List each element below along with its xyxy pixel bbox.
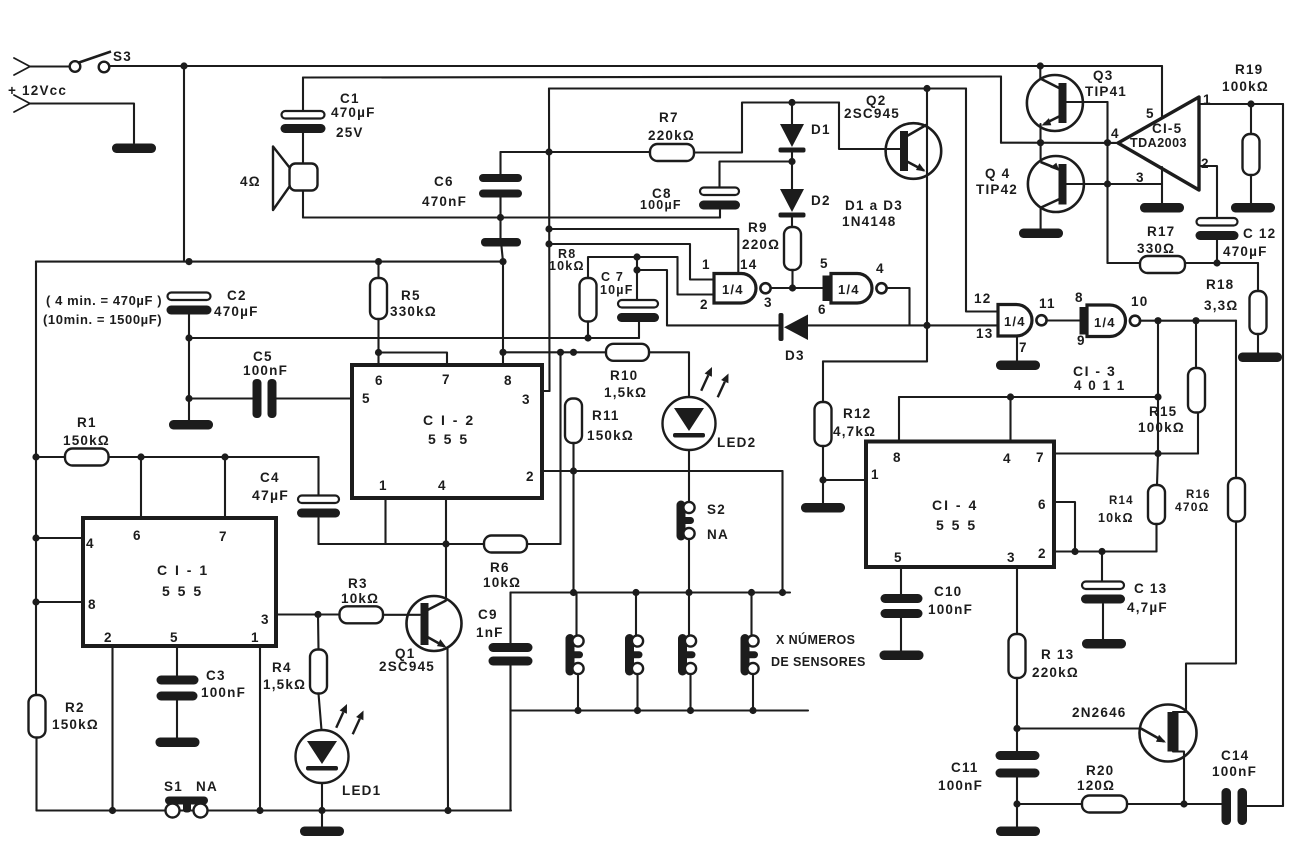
wire R14 top lead	[1157, 454, 1158, 486]
svg-text:2SC945: 2SC945	[844, 106, 900, 121]
svg-text:C4: C4	[260, 470, 280, 485]
svg-text:3: 3	[1007, 550, 1016, 565]
svg-text:DE SENSORES: DE SENSORES	[771, 655, 866, 669]
ground LED1	[300, 827, 344, 837]
switch S3	[70, 52, 111, 73]
svg-text:4: 4	[438, 478, 447, 493]
wire C14 to right rail	[1247, 805, 1283, 807]
transistor 2N2646 UJT	[1140, 705, 1197, 762]
capacitor C6 470nF	[479, 174, 522, 198]
svg-text:C I - 2: C I - 2	[423, 412, 475, 428]
wire return to ground	[30, 104, 134, 144]
node LED1 bus	[318, 807, 325, 814]
wire pin6 CI-1 drop	[140, 457, 142, 518]
svg-text:R19: R19	[1235, 62, 1263, 77]
svg-text:7: 7	[442, 372, 451, 387]
node R20 left	[1013, 800, 1020, 807]
node D1 cathode C8 tie	[788, 158, 795, 165]
svg-text:C2: C2	[227, 288, 247, 303]
wire C6 bar to bus	[502, 247, 504, 262]
wire Q3 base	[1067, 101, 1108, 103]
svg-text:470µF: 470µF	[1223, 244, 1268, 259]
wire sensor 2 top lead	[635, 593, 637, 636]
svg-text:5: 5	[362, 391, 371, 406]
node C2 bottom line	[185, 334, 192, 341]
wire R6 right riser	[559, 352, 561, 544]
resistor R5 330k	[370, 278, 387, 319]
wire bus to CI-5 pin 5	[1161, 66, 1163, 119]
node C7 top	[633, 253, 640, 260]
svg-text:NA: NA	[707, 527, 729, 542]
IC CI-4 555	[866, 442, 1054, 568]
svg-text:5: 5	[894, 550, 903, 565]
wire UJT B2 to R16	[1173, 522, 1236, 713]
wire R9 to gate output	[791, 270, 793, 288]
resistor R19 100k	[1243, 134, 1260, 175]
svg-text:C3: C3	[206, 668, 226, 683]
svg-text:150kΩ: 150kΩ	[63, 433, 110, 448]
wire Q3 emitter	[1039, 124, 1041, 143]
capacitor C10 100nF	[881, 594, 923, 618]
svg-text:C5: C5	[253, 349, 273, 364]
resistor R7 220k	[650, 144, 694, 161]
wire R6 right lead	[527, 543, 561, 545]
svg-text:25V: 25V	[336, 125, 364, 140]
wire timing bus	[36, 261, 503, 263]
wire D3 line to pin 13	[808, 324, 998, 326]
wire pin1 CI-1 drop	[259, 646, 261, 811]
svg-text:R20: R20	[1086, 763, 1114, 778]
node R6 riser top	[557, 349, 564, 356]
wire pin8 CI-1 stub	[36, 601, 83, 603]
ground Q4	[1019, 229, 1063, 239]
svg-text:C1: C1	[340, 91, 360, 106]
wire S2 to sensor bus	[688, 539, 690, 593]
capacitor C6 lower bar	[481, 238, 521, 247]
svg-text:3: 3	[522, 392, 531, 407]
wire pin5 CI-1 to C3	[176, 646, 178, 676]
svg-text:8: 8	[1075, 290, 1084, 305]
wire gate3 pin7 ground lead	[1016, 337, 1018, 362]
node S3 rail	[180, 62, 187, 69]
sensor switch 2	[625, 634, 643, 676]
svg-text:10: 10	[1131, 294, 1148, 309]
wire input to S3	[30, 65, 70, 67]
wire pin3 CI-1 line	[276, 613, 340, 615]
LED2	[663, 397, 716, 450]
wire R19 ground lead	[1250, 175, 1252, 203]
wire UJT B1 to R20 line	[1173, 752, 1184, 805]
wire pin7 CI-1 drop	[224, 457, 226, 518]
wire R12 top lead	[822, 361, 824, 402]
wire pin3 stub	[542, 390, 550, 392]
svg-text:10kΩ: 10kΩ	[549, 259, 585, 273]
node pin2 bus	[109, 807, 116, 814]
wire C11 down	[1016, 778, 1018, 828]
node pin2 sensor tie	[779, 589, 786, 596]
wire to R20	[1017, 803, 1082, 805]
svg-text:R18: R18	[1206, 277, 1234, 292]
svg-text:R1: R1	[77, 415, 97, 430]
svg-text:8: 8	[504, 373, 513, 388]
wire R17 left lead	[1108, 262, 1141, 264]
resistor R17 330R	[1140, 256, 1185, 273]
resistor R18 3.3R	[1250, 291, 1267, 334]
wire right rail	[1282, 104, 1284, 806]
wire pin2 line	[542, 470, 783, 472]
wire pin3 CI-5 ground lead	[1161, 167, 1163, 203]
wire line to gate1 input B	[678, 257, 715, 295]
svg-text:Q3: Q3	[1093, 68, 1113, 83]
wire R6 left lead	[446, 543, 484, 545]
node emitters	[1037, 139, 1044, 146]
resistor R11 150k	[565, 399, 582, 444]
capacitor C13 4.7uF	[1081, 582, 1125, 604]
diode D2 1N4148	[779, 189, 806, 218]
svg-text:R4: R4	[272, 660, 292, 675]
wire C5 to pin5 CI-2	[277, 397, 353, 399]
wire C2 down to ground	[188, 315, 190, 421]
resistor R16 470R	[1228, 478, 1245, 522]
input terminal chevron +12V lower	[14, 67, 30, 76]
svg-text:6: 6	[375, 373, 384, 388]
svg-text:220kΩ: 220kΩ	[1032, 665, 1079, 680]
svg-text:D2: D2	[811, 193, 831, 208]
resistor R4 1.5k	[310, 650, 327, 694]
svg-text:1: 1	[251, 630, 260, 645]
speaker 4 ohm	[273, 147, 318, 211]
svg-text:1/4: 1/4	[838, 282, 860, 297]
node sensor4 top	[748, 589, 755, 596]
wire R20 to C14	[1127, 803, 1222, 805]
wire D3 line left	[667, 324, 778, 326]
resistor R1 150k	[65, 449, 109, 466]
wire C6 mid lead	[499, 198, 501, 239]
svg-text:120Ω: 120Ω	[1077, 778, 1115, 793]
wire pin2 drop to sensor bus	[781, 471, 783, 593]
wire C2 node line	[189, 337, 639, 339]
svg-text:NA: NA	[196, 779, 218, 794]
wire R17 to R18	[1185, 262, 1258, 264]
node Q4 base	[1104, 180, 1111, 187]
svg-text:10µF: 10µF	[600, 283, 634, 297]
capacitor C5 100nF	[253, 379, 277, 418]
wire R1 lead left	[36, 456, 65, 458]
svg-text:220Ω: 220Ω	[742, 237, 780, 252]
svg-text:150kΩ: 150kΩ	[587, 428, 634, 443]
svg-text:10kΩ: 10kΩ	[341, 591, 379, 606]
wire R5 to pin 6	[377, 319, 379, 365]
wire sensor 1 top lead	[575, 593, 577, 636]
svg-text:2: 2	[526, 469, 535, 484]
capacitor C8 100uF	[699, 188, 740, 210]
wire sensor 2 bottom lead	[636, 676, 638, 711]
wire C6 top lead	[499, 152, 501, 174]
node R15 top	[1192, 317, 1199, 324]
svg-text:R3: R3	[348, 576, 368, 591]
wire R1 line	[109, 456, 319, 458]
svg-text:LED1: LED1	[342, 783, 381, 798]
svg-text:6: 6	[818, 302, 827, 317]
gate CI-3c quarter 4011	[998, 305, 1047, 337]
svg-text:2SC945: 2SC945	[379, 659, 435, 674]
wire C5 left lead	[189, 397, 253, 399]
svg-text:CI - 4: CI - 4	[932, 497, 978, 513]
switch S1 NA	[165, 797, 208, 818]
wire C7 node to D3 line	[637, 270, 667, 325]
svg-text:5: 5	[820, 256, 829, 271]
wire UJT emitter line	[1017, 727, 1141, 729]
svg-text:8: 8	[88, 597, 97, 612]
wire gate1 output	[771, 287, 823, 289]
svg-text:TIP42: TIP42	[976, 182, 1018, 197]
svg-text:( 4 min. = 470µF ): ( 4 min. = 470µF )	[46, 293, 162, 308]
node C6 pin8 rail	[499, 258, 506, 265]
wire Q3 collector	[1039, 66, 1041, 79]
svg-text:D1 a D3: D1 a D3	[845, 198, 903, 213]
LED2 arrows	[701, 367, 728, 397]
wire output to R16	[1235, 321, 1237, 478]
resistor R9 220R	[784, 227, 801, 270]
ground C10	[880, 651, 924, 661]
wire pin3 long riser	[548, 89, 551, 392]
node pin8 line	[499, 349, 506, 356]
ground CI-5 pin3	[1140, 203, 1184, 213]
svg-text:4 0 1 1: 4 0 1 1	[1074, 378, 1126, 393]
transistor Q1 2SC945	[407, 596, 462, 651]
node sensor 4 bottom	[749, 707, 756, 714]
node pin4 rail	[32, 534, 39, 541]
wire second supply bus	[303, 77, 1001, 78]
wire R10 to LED2	[649, 352, 689, 397]
node R12 emitter tie	[923, 322, 930, 329]
ground CI-3 pin 7	[996, 361, 1040, 371]
wire R15 bottom lead	[1197, 413, 1199, 454]
capacitor C9 1nF	[489, 643, 533, 666]
wire pin3 CI-4 to R13	[1016, 567, 1018, 634]
wire pin8 to R10 line	[503, 351, 606, 353]
wire Q4 base line	[1067, 183, 1163, 185]
svg-text:3,3Ω: 3,3Ω	[1204, 298, 1238, 313]
node Q1 emitter bus	[444, 807, 451, 814]
wire gate4 output line	[1140, 320, 1236, 322]
wire R8 bottom lead	[587, 322, 589, 339]
LED1	[296, 730, 349, 783]
svg-text:2: 2	[104, 630, 113, 645]
wire gate4 down riser	[1157, 321, 1159, 454]
wire pin6-pin7 tie	[379, 353, 448, 366]
resistor R8 10k	[580, 278, 597, 322]
wire emitter node down	[926, 325, 928, 361]
svg-text:R 13: R 13	[1041, 647, 1074, 662]
svg-text:X NÚMEROS: X NÚMEROS	[776, 632, 855, 647]
IC CI-2 555	[352, 365, 542, 498]
wire Q1 emitter drop	[446, 648, 449, 811]
wire R4 top lead	[317, 615, 320, 650]
svg-text:C 13: C 13	[1134, 581, 1167, 596]
svg-text:C9: C9	[478, 607, 498, 622]
wire C7 bottom lead	[638, 322, 640, 339]
wire pin2 CI-4 line	[1054, 550, 1157, 552]
svg-text:CI-5: CI-5	[1152, 121, 1182, 136]
node sensor 2 bottom	[634, 707, 641, 714]
wire line to gate1 input A	[549, 244, 714, 280]
switch S2 NA	[677, 501, 695, 541]
node C7 branch	[633, 266, 640, 273]
svg-text:13: 13	[976, 326, 993, 341]
node pin7 top	[221, 453, 228, 460]
ground R12	[801, 503, 845, 513]
svg-text:5 5 5: 5 5 5	[936, 517, 977, 533]
node R19 top	[1247, 100, 1254, 107]
svg-text:4: 4	[1111, 126, 1120, 141]
wire top supply bus	[109, 65, 1162, 67]
svg-text:S2: S2	[707, 502, 726, 517]
node R12 pin1	[819, 476, 826, 483]
wire C6 to R7	[501, 151, 651, 153]
node riser pin14 line	[545, 225, 552, 232]
wire C1 to speaker	[302, 133, 304, 164]
wire pin4 output line	[1001, 142, 1118, 144]
wire LED1 ground lead	[321, 811, 323, 828]
resistor R3 10k	[340, 606, 384, 623]
resistor R15 100k	[1188, 368, 1205, 413]
svg-text:C6: C6	[434, 174, 454, 189]
wire R18 ground lead	[1257, 334, 1259, 353]
wire LED1 to bus	[321, 784, 323, 811]
wire C8 top to D1-D2 node	[720, 162, 793, 188]
wire C13 top lead	[1101, 552, 1103, 582]
wire base rail down	[1106, 102, 1108, 263]
svg-text:D1: D1	[811, 122, 831, 137]
wire R5 top lead	[377, 262, 379, 278]
transistor Q4 TIP42	[1028, 156, 1084, 212]
wire Q4 emitter	[1040, 143, 1042, 162]
sensor switch 3	[678, 634, 696, 676]
node D1 anode	[788, 99, 795, 106]
capacitor C2 470uF	[167, 293, 212, 315]
svg-text:R17: R17	[1147, 224, 1175, 239]
node UJT emitter line	[1013, 725, 1020, 732]
transistor Q3 TIP41	[1027, 75, 1083, 131]
node vertical tap on C6-R7 line	[545, 148, 552, 155]
ground C11	[996, 827, 1040, 837]
svg-text:100kΩ: 100kΩ	[1138, 420, 1185, 435]
svg-text:100nF: 100nF	[938, 778, 983, 793]
svg-text:12: 12	[974, 291, 991, 306]
wire C4 bottom lead	[317, 518, 319, 544]
wire pin2 CI-5 to C12	[1199, 166, 1217, 218]
wire R14 bottom lead	[1155, 524, 1157, 552]
node C2 top	[185, 258, 192, 265]
wire gate2 output step	[887, 288, 910, 325]
svg-text:470Ω: 470Ω	[1175, 500, 1209, 514]
wire Q2 collector up	[926, 89, 928, 125]
node reset riser	[1154, 393, 1161, 400]
capacitor C3 100nF	[157, 676, 199, 701]
svg-text:C10: C10	[934, 584, 962, 599]
node pin6 tie CI-4	[1071, 548, 1078, 555]
capacitor C4 47uF	[297, 496, 340, 518]
input terminal chevron return	[14, 95, 30, 104]
svg-text:Q 4: Q 4	[985, 166, 1010, 181]
node bases pin4	[1104, 139, 1111, 146]
svg-text:100nF: 100nF	[243, 363, 288, 378]
svg-text:4Ω: 4Ω	[240, 174, 261, 189]
svg-text:C11: C11	[951, 760, 979, 775]
wire R3 to Q1 base	[383, 614, 420, 616]
wire R4 to LED1	[319, 694, 322, 731]
wire R8 top line	[588, 257, 678, 278]
node Q3 collector on bus	[1037, 62, 1044, 69]
svg-text:C14: C14	[1221, 748, 1249, 763]
wire R11 down to sensors	[572, 443, 574, 593]
node R1 rail	[32, 453, 39, 460]
wire bottom bus	[37, 809, 512, 811]
wire R18 top lead	[1257, 263, 1259, 291]
svg-text:470µF: 470µF	[331, 105, 376, 120]
capacitor C1 470uF	[281, 111, 326, 133]
svg-text:1: 1	[871, 467, 880, 482]
svg-text:3: 3	[764, 295, 773, 310]
wire pin4 CI-1 stub	[36, 537, 83, 539]
wire R19 top lead	[1250, 104, 1252, 134]
capacitor C7 10uF	[617, 300, 659, 322]
ground R19	[1231, 203, 1275, 213]
capacitor C11 100nF	[996, 751, 1040, 778]
node sensor2 top	[632, 589, 639, 596]
svg-text:9: 9	[1077, 333, 1086, 348]
resistor R2 150k	[29, 695, 46, 738]
wire sensor 4 bottom lead	[752, 676, 754, 711]
input terminal chevron return lower	[14, 104, 30, 113]
node sensor1 top	[570, 589, 577, 596]
ground return input	[112, 144, 156, 154]
node C5 tap	[185, 395, 192, 402]
svg-text:2N2646: 2N2646	[1072, 705, 1127, 720]
svg-text:R10: R10	[610, 368, 638, 383]
svg-text:R7: R7	[659, 110, 679, 125]
svg-text:11: 11	[1039, 296, 1056, 311]
wire C10 ground lead	[900, 618, 902, 651]
svg-text:1,5kΩ: 1,5kΩ	[604, 385, 647, 400]
wire sensor 3 bottom lead	[689, 676, 691, 711]
svg-text:R15: R15	[1149, 404, 1177, 419]
wire rail S3 down to timing bus	[183, 66, 185, 262]
wire C9 top lead	[509, 593, 511, 644]
svg-text:470µF: 470µF	[214, 304, 259, 319]
svg-text:47µF: 47µF	[252, 487, 289, 503]
diode D3 1N4148	[779, 313, 809, 341]
wire pin8 drop	[502, 262, 504, 365]
LED1 arrows	[336, 704, 363, 734]
svg-text:TIP41: TIP41	[1085, 84, 1127, 99]
wire pin6 CI-4 tie	[1054, 502, 1075, 552]
node R11 top	[570, 349, 577, 356]
svg-text:100kΩ: 100kΩ	[1222, 79, 1269, 94]
svg-text:C 12: C 12	[1243, 226, 1276, 241]
svg-text:10kΩ: 10kΩ	[483, 575, 521, 590]
wire LED2 to S2	[688, 450, 690, 502]
gate CI-3a quarter 4011	[714, 274, 771, 304]
svg-text:5 5 5: 5 5 5	[428, 431, 469, 447]
node pin6 tie	[375, 349, 382, 356]
wire pin1 CI-4 stub	[823, 479, 866, 481]
resistor R14 10k	[1148, 485, 1165, 524]
op-amp CI-5 TDA2003	[1118, 97, 1199, 190]
svg-text:6: 6	[1038, 497, 1047, 512]
wire R12 bottom	[822, 446, 824, 480]
